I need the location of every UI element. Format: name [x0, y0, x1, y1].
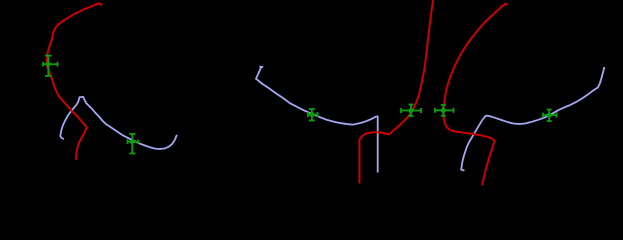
green error-bar point 3: [308, 109, 318, 121]
green error-bar point 5: [435, 105, 454, 116]
red RV model curve, middle panel (descending arc with vertical drop): [359, 0, 433, 184]
blue RV model curve, left panel: [60, 97, 177, 149]
blue RV model curve, right panel: [461, 67, 604, 171]
green error-bar point 1: [43, 56, 58, 76]
green error-bar point 6: [543, 110, 557, 122]
red RV model curve, left panel: [47, 3, 103, 159]
green error-bar point 2: [128, 134, 139, 154]
green error-bar point 4: [401, 105, 421, 117]
blue curve start tick, middle panel: [259, 66, 263, 68]
blue RV model curve, middle panel: [256, 67, 378, 173]
red RV model curve, right panel (arc2 with bend and tail): [444, 4, 508, 186]
